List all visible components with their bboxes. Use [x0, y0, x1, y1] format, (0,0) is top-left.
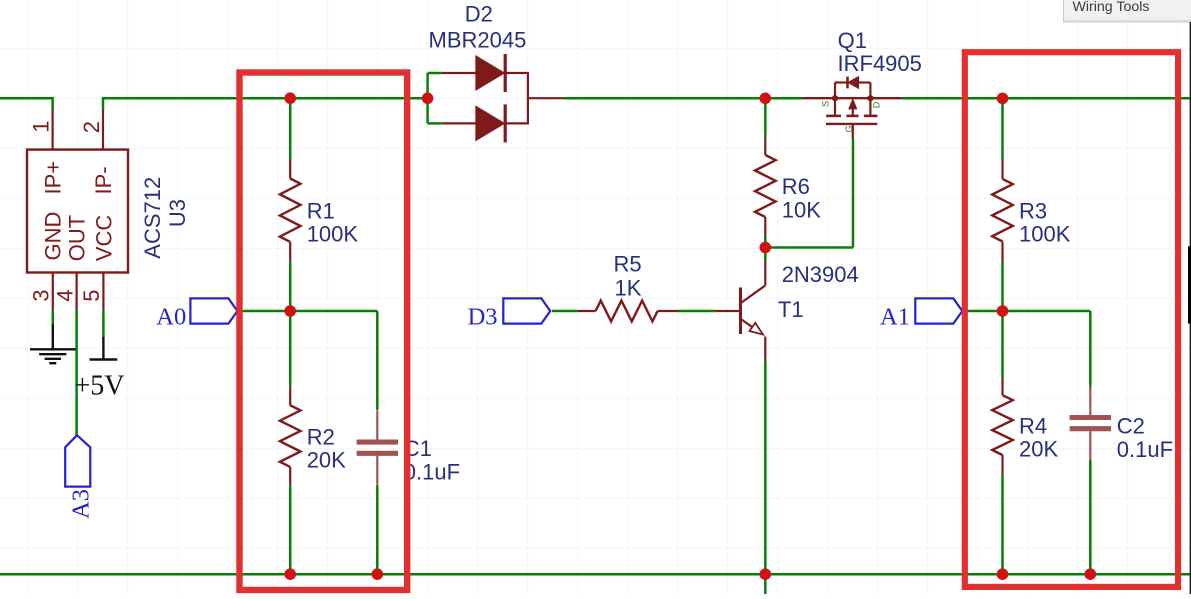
net flag A0 [190, 298, 237, 323]
D2 cathode join [527, 72, 529, 125]
resistor R3 top lead [1001, 160, 1003, 179]
wire R5 to T1 base [678, 310, 716, 313]
svg-text:Q1: Q1 [838, 28, 867, 53]
junction R3 top [997, 93, 1009, 105]
resistor R4 bottom lead [1001, 455, 1003, 474]
svg-text:IP-: IP- [91, 166, 116, 194]
wire T1 emitter to bottom bus and below [764, 361, 767, 594]
svg-text:ACS712: ACS712 [140, 177, 165, 259]
wire U3 VCC pin stub [102, 310, 105, 338]
window edge line [1189, 22, 1191, 594]
svg-text:R3: R3 [1019, 198, 1047, 223]
resistor R6 bottom lead [764, 217, 766, 237]
junction R6 top [760, 93, 772, 105]
wire R2 to bottom bus [289, 485, 292, 574]
wire down to C1 [376, 311, 379, 410]
wire C1 to bottom bus [376, 485, 379, 574]
wire D2 output to Q1 source [563, 97, 802, 100]
black side bar [1188, 246, 1191, 323]
selection rectangle right [965, 52, 1178, 587]
svg-text:4: 4 [52, 290, 77, 302]
Q1 drain pin dot [867, 95, 873, 101]
resistor R6 top lead [764, 137, 766, 155]
resistor R6 zigzag [755, 155, 776, 217]
wire A1 node to R4 [1001, 311, 1004, 378]
resistor R1 top lead [289, 160, 291, 179]
svg-text:R4: R4 [1019, 413, 1047, 438]
net flag A1 [915, 298, 962, 323]
wire bottom bus [0, 573, 1191, 576]
resistor R1 bottom lead [289, 242, 291, 262]
wire R6 to T1 collector node [764, 237, 767, 262]
svg-text:5: 5 [79, 290, 104, 302]
svg-text:S: S [820, 101, 830, 107]
wire down to C2 [1089, 311, 1092, 389]
resistor R4 top lead [1001, 378, 1003, 395]
wire junction to R6 [764, 98, 767, 137]
wire to D2 lower anode [428, 122, 443, 125]
U3 pin 1 [51, 110, 53, 150]
wire Q1 drain to right edge [903, 97, 1191, 100]
svg-text:2N3904: 2N3904 [782, 262, 859, 287]
svg-text:3: 3 [29, 290, 54, 302]
svg-text:VCC: VCC [91, 215, 116, 262]
wire to D2 upper anode [428, 72, 442, 75]
svg-text:100K: 100K [1019, 222, 1071, 247]
svg-text:C2: C2 [1117, 414, 1145, 439]
junction A1 [997, 305, 1009, 317]
wire D2 input branch vertical [426, 73, 429, 123]
wire T1 node to gate riser [765, 246, 853, 249]
U3 pin 3 [52, 273, 54, 311]
junction emitter bus [760, 568, 772, 580]
U3 pin 2 [102, 110, 104, 150]
diode D2 MBR2045 [442, 72, 476, 74]
svg-text:20K: 20K [1019, 437, 1058, 462]
svg-text:D3: D3 [468, 303, 498, 330]
capacitor C2 top lead [1089, 386, 1091, 416]
wire A0 node to R2 [289, 311, 292, 386]
svg-text:A0: A0 [156, 303, 186, 330]
D2 output lead [528, 97, 563, 99]
capacitor C2 bottom plate [1070, 426, 1111, 431]
capacitor C1 bottom plate [357, 451, 398, 456]
svg-text:D: D [872, 101, 882, 108]
junction T1 collector [760, 242, 772, 254]
wire junction to R1 [289, 98, 292, 160]
capacitor C1 top lead [376, 410, 378, 440]
svg-text:R5: R5 [614, 252, 642, 277]
wire R1 to A0 node [289, 262, 292, 311]
svg-text:R2: R2 [307, 424, 335, 449]
junction A0 [284, 305, 296, 317]
junction R2 bottom [284, 568, 296, 580]
wire R4 to bottom bus [1001, 474, 1004, 574]
svg-text:1K: 1K [615, 276, 642, 301]
resistor R2 bottom lead [289, 467, 291, 485]
capacitor C2 top plate [1070, 415, 1111, 420]
svg-text:T1: T1 [778, 297, 804, 322]
junction D2 in [422, 93, 434, 105]
svg-text:0.1uF: 0.1uF [404, 460, 460, 485]
svg-text:IRF4905: IRF4905 [838, 51, 922, 76]
svg-text:R6: R6 [782, 174, 810, 199]
svg-text:20K: 20K [307, 448, 346, 473]
+5V power symbol [102, 337, 104, 360]
svg-text:IP+: IP+ [41, 161, 66, 195]
capacitor C1 bottom lead [376, 456, 378, 485]
svg-text:+5V: +5V [75, 371, 125, 402]
junction C1 bottom [372, 568, 384, 580]
wire junction to R3 [1001, 98, 1004, 160]
svg-text:G: G [844, 125, 854, 132]
svg-text:1: 1 [28, 121, 53, 133]
selection rectangle left [240, 73, 408, 591]
svg-text:OUT: OUT [65, 215, 90, 261]
resistor R5 [578, 310, 596, 312]
wire pin2 stub [102, 97, 105, 110]
resistor R2 zigzag [280, 405, 301, 467]
svg-text:10K: 10K [782, 198, 821, 223]
IC U3 ACS712 body [27, 150, 128, 273]
Wiring Tools panel [1063, 0, 1191, 21]
wire D3 flag to R5 [552, 310, 578, 313]
svg-text:U3: U3 [165, 199, 190, 227]
svg-text:100K: 100K [307, 222, 359, 247]
svg-text:A3: A3 [68, 489, 95, 519]
svg-text:D2: D2 [465, 2, 493, 27]
resistor R2 top lead [289, 386, 291, 405]
net flag A3 [65, 435, 90, 486]
junction R1 top [284, 92, 296, 104]
resistor R3 bottom lead [1001, 242, 1003, 262]
svg-text:2: 2 [79, 121, 104, 133]
capacitor C1 top plate [357, 440, 398, 445]
transistor T1 2N3904 [764, 261, 766, 286]
wire U3 OUT pin to A3 flag [75, 310, 78, 435]
resistor R1 zigzag [280, 179, 301, 242]
Q1 source pin dot [832, 95, 838, 101]
U3 pin 5 [102, 273, 104, 311]
wire R3 to A1 node [1001, 262, 1004, 312]
junction R4 bottom [997, 568, 1009, 580]
wire top bus left to pin1 [0, 97, 53, 100]
wire U3 GND pin stub [52, 310, 55, 325]
junction C2 bottom [1085, 568, 1097, 580]
svg-text:A1: A1 [880, 303, 910, 330]
wire A0 flag to C1 branch [237, 310, 377, 313]
svg-text:R1: R1 [307, 198, 335, 223]
capacitor C2 bottom lead [1089, 431, 1091, 460]
transistor Q1 IRF4905 [803, 97, 903, 99]
resistor R3 zigzag [992, 179, 1013, 242]
wire top bus pin2 to D2 [103, 97, 428, 100]
svg-text:MBR2045: MBR2045 [429, 27, 527, 52]
svg-text:0.1uF: 0.1uF [1117, 437, 1173, 462]
wire A1 flag to C2 branch [963, 310, 1091, 313]
net flag D3 [503, 298, 550, 323]
wire gate riser [852, 139, 855, 248]
wire C2 to bottom bus [1089, 460, 1092, 574]
resistor R4 zigzag [992, 395, 1013, 455]
svg-text:GND: GND [41, 212, 66, 261]
wire pin1 stub [51, 97, 54, 110]
U3 pin 4 [75, 273, 77, 311]
svg-text:Wiring Tools: Wiring Tools [1073, 0, 1150, 15]
ground symbol [52, 324, 54, 349]
